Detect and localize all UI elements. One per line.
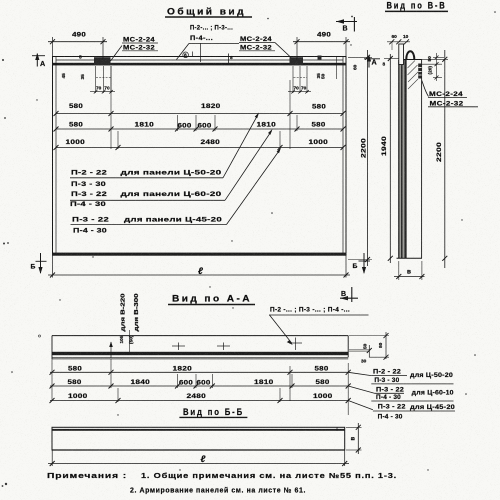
A-A dim row 3 (50, 388, 351, 403)
corner detail cluster left (61, 55, 115, 94)
MC callout right (239, 36, 291, 58)
section mark B bottom-right (353, 253, 371, 274)
callout block main L3 (70, 129, 273, 200)
embed plate left top (94, 57, 111, 65)
title: Vid po V-V (387, 1, 447, 11)
title: Obshchiy vid (167, 7, 246, 17)
section mark B bottom-left (31, 253, 47, 274)
dim 2200 main right (348, 50, 372, 266)
dim 1940 B-B left (381, 54, 399, 263)
section arrow A right (364, 55, 380, 68)
A-A panel strip (52, 336, 348, 359)
A-A lip right (349, 350, 369, 352)
callout block main L1 (70, 113, 259, 178)
bottom dim l main (48, 256, 350, 278)
dim 2200 B-B right (422, 50, 448, 268)
B-B lower dim l (48, 450, 349, 466)
notes line 2 (130, 487, 306, 495)
title: Vid po B-B (lower) (183, 407, 244, 417)
lifting loop B-B (406, 51, 414, 59)
MC callout B-B (422, 81, 478, 108)
title B-B lower underline (179, 416, 247, 418)
section B-B rib (397, 60, 423, 258)
section mark V at A-A (340, 287, 358, 302)
dim row 1 main (54, 103, 346, 116)
A-A right thickness dims (349, 332, 389, 365)
dim 490 left (48, 32, 107, 61)
corner detail cluster right (288, 56, 337, 94)
P callout top (177, 25, 240, 63)
right small chain 50 (20) B-B (422, 53, 444, 81)
dim row 3 main (54, 131, 346, 150)
notes line 1 (47, 472, 397, 480)
MC callout left (111, 37, 159, 62)
A-A right callout group 2 (348, 386, 454, 401)
scan noise overlay (0, 0, 1, 1)
title A-A underline (168, 304, 255, 306)
embed plate right top (290, 57, 304, 65)
dim 490 right (293, 32, 350, 61)
A-A dim row 1 (50, 359, 351, 415)
section B-B top upstand (399, 44, 404, 65)
bottom width dim v B-B (394, 261, 425, 280)
dim row 2 main (54, 66, 346, 149)
A-A right callout group 3 (348, 401, 455, 421)
embed bracket B-B (418, 64, 421, 79)
A-A dim row 2 (50, 359, 351, 401)
callout block main L5 (71, 148, 282, 225)
section arrow A left (32, 53, 45, 68)
B-B lower rect (52, 427, 345, 450)
A-A right callout group 1 (348, 368, 453, 384)
title underline (165, 16, 252, 18)
title: Vid po A-A (172, 294, 252, 304)
A-A surface ticks (109, 338, 302, 359)
A-A rotated labels (119, 293, 140, 352)
title V-V underline (385, 10, 448, 12)
center tick top (229, 54, 234, 64)
section B-B hatch (408, 61, 420, 90)
section mark V top (336, 17, 357, 33)
A-A callout P (269, 307, 369, 346)
B-B lower right dim v (346, 423, 362, 454)
top dims 60 10 B-B (383, 34, 411, 68)
section B-B head and face (404, 60, 422, 259)
main panel outline (53, 57, 347, 256)
